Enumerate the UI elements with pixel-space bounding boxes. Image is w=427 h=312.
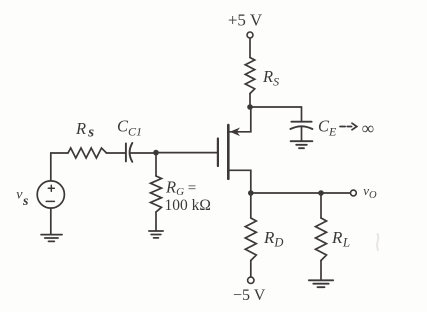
svg-text:RG =: RG = — [165, 178, 196, 199]
wire node S to CE — [250, 107, 302, 122]
capacitor CE top plate — [291, 121, 311, 123]
transistor M1 channel bar — [227, 125, 230, 179]
svg-text:100 kΩ: 100 kΩ — [165, 197, 211, 214]
wire Rs to CC1 — [107, 152, 126, 154]
minus sign — [46, 200, 54, 202]
svg-text:R: R — [75, 119, 86, 138]
transistor M1 source line — [230, 107, 251, 132]
node G junction — [153, 150, 159, 156]
svg-text:RL: RL — [331, 228, 350, 250]
svg-text:RS: RS — [262, 67, 279, 89]
resistor RD — [245, 218, 256, 261]
wire +5V to RS — [249, 38, 251, 57]
svg-text:CE: CE — [318, 117, 337, 139]
resistor Rs — [68, 148, 107, 158]
source vs circle — [37, 181, 64, 208]
transistor M1 source arrow — [230, 128, 240, 137]
wire CC1 to node G — [131, 152, 157, 154]
vo terminal — [351, 190, 357, 196]
svg-text:CC1: CC1 — [117, 117, 142, 139]
resistor RS — [245, 58, 254, 94]
+5V terminal — [247, 32, 253, 38]
wire node D to RD — [250, 193, 252, 218]
ground below vs — [41, 235, 62, 242]
resistor RL — [316, 218, 327, 261]
wire node L to RL — [320, 193, 322, 218]
svg-text:+5 V: +5 V — [228, 10, 263, 29]
svg-text:RD: RD — [263, 228, 283, 250]
wire CE to ground — [301, 127, 303, 141]
wire node G to gate — [156, 152, 218, 154]
node L junction — [318, 190, 324, 196]
wire RG to ground — [155, 212, 157, 231]
node D junction — [248, 190, 254, 196]
CE arrow dashes — [340, 123, 357, 130]
wire RD to -5V — [250, 261, 252, 278]
wire node G down to RG — [155, 153, 157, 176]
wire RL to ground — [320, 261, 322, 280]
svg-text:vO: vO — [363, 183, 377, 201]
wire node D to vo — [251, 192, 351, 194]
svg-text:s: s — [22, 194, 29, 209]
wire vs to ground — [50, 208, 52, 234]
plus sign — [48, 185, 54, 191]
capacitor CC1 left plate — [125, 143, 127, 161]
svg-text:−5 V: −5 V — [233, 287, 266, 304]
-5V terminal — [248, 277, 254, 283]
ground below CE — [291, 141, 313, 148]
scan artifact right — [377, 234, 378, 250]
capacitor CC1 curved plate — [130, 143, 133, 162]
wire RS to node S — [249, 94, 251, 108]
wire vs up — [51, 153, 68, 181]
resistor RG — [151, 176, 162, 212]
node S junction — [247, 104, 253, 110]
svg-text:s: s — [87, 124, 94, 140]
ground below RG — [149, 231, 163, 238]
ground below RL — [309, 280, 333, 287]
transistor M1 drain line — [230, 170, 251, 193]
transistor M1 gate bar — [217, 139, 219, 167]
capacitor CE curved plate — [290, 126, 312, 129]
svg-text:∞: ∞ — [362, 118, 374, 138]
